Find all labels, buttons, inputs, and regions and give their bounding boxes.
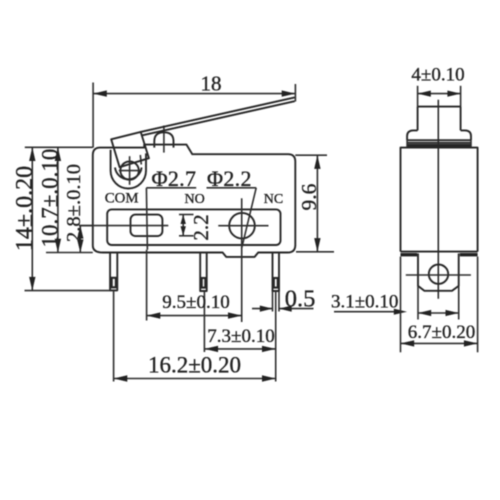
svg-text:Φ2.2: Φ2.2	[207, 166, 252, 191]
svg-text:9.5±0.10: 9.5±0.10	[162, 292, 229, 313]
svg-text:2.8±.0.10: 2.8±.0.10	[63, 164, 85, 242]
svg-text:Φ2.7: Φ2.7	[152, 166, 197, 191]
svg-text:NC: NC	[264, 192, 283, 207]
svg-text:14±.0.20: 14±.0.20	[12, 166, 38, 251]
svg-text:7.3±0.10: 7.3±0.10	[207, 326, 274, 347]
svg-text:9.6: 9.6	[297, 183, 321, 210]
svg-text:3.1±0.10: 3.1±0.10	[331, 292, 398, 313]
svg-text:COM: COM	[105, 191, 139, 207]
svg-text:18: 18	[201, 72, 222, 96]
svg-text:16.2±0.20: 16.2±0.20	[148, 352, 241, 377]
svg-text:6.7±0.20: 6.7±0.20	[408, 322, 475, 343]
svg-text:4±0.10: 4±0.10	[411, 65, 464, 86]
svg-text:NO: NO	[185, 192, 205, 207]
svg-text:2.2: 2.2	[189, 214, 213, 240]
svg-text:10.7±.0.10: 10.7±.0.10	[37, 149, 62, 248]
svg-text:0.5: 0.5	[285, 286, 316, 313]
